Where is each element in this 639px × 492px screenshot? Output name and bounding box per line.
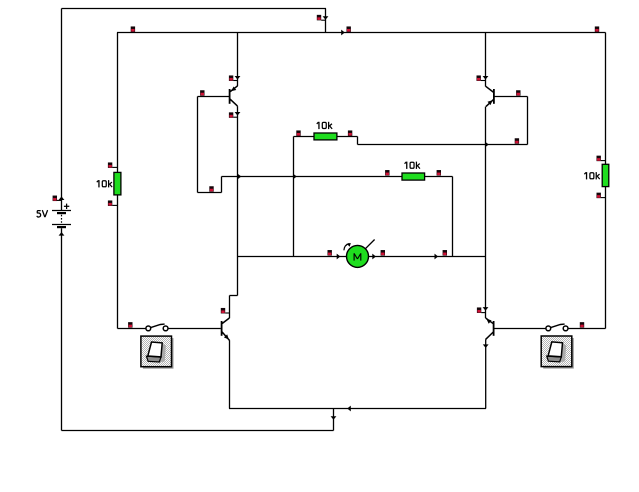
- pin motor row right end: [443, 250, 447, 256]
- current arrow on inner rail: [341, 30, 345, 36]
- pin motor left: [328, 250, 332, 256]
- pin switch SW2 right: [580, 322, 584, 328]
- switch icon SW1: [141, 336, 174, 369]
- wire long run to Q2 base loop: [358, 144, 528, 146]
- pin Q4 top: [477, 307, 481, 313]
- junction arrow at x293: [294, 174, 297, 179]
- wire Q4 base lead: [494, 328, 546, 330]
- value label 10k (R4): [584, 172, 599, 179]
- wire R2 left drop: [293, 137, 295, 257]
- wire R2 left lead: [294, 136, 315, 138]
- pin R4 bottom: [597, 193, 601, 199]
- wire motor row right: [368, 256, 486, 258]
- battery B1 5V: [52, 204, 71, 229]
- current arrow before right junction: [435, 254, 439, 260]
- resistor R1 10k (left vertical): [114, 172, 121, 195]
- pin R2 right: [348, 130, 352, 136]
- wire battery negative vertical: [61, 228, 63, 430]
- value label 10k (R1): [97, 180, 112, 187]
- wire top inner rail: [117, 32, 606, 34]
- current arrow above Q4: [483, 307, 489, 311]
- pin loop bottom: [209, 186, 213, 192]
- pin R1 top: [108, 162, 112, 168]
- wire Q4 emitter down: [485, 339, 487, 408]
- pin R3 right: [437, 170, 441, 176]
- pin Q1 bottom: [229, 112, 233, 118]
- pin battery positive: [53, 196, 57, 202]
- wire top outer rail: [62, 8, 327, 10]
- wire Q2 base lead: [494, 96, 528, 98]
- transistor Q2 (PNP top-right): [486, 33, 495, 107]
- current arrow motor right: [372, 254, 376, 260]
- pin motor right: [381, 250, 385, 256]
- pin R4 top: [597, 156, 601, 162]
- wire junction drop: [333, 409, 335, 431]
- value label 10k (R2): [317, 122, 332, 129]
- pin Q1 top: [229, 75, 233, 81]
- resistor R4 10k (right vertical): [602, 164, 609, 186]
- wire Q1 base lead: [198, 96, 230, 98]
- pin top drop: [317, 15, 321, 21]
- wire R2 right lead: [337, 136, 358, 138]
- motor M1: [344, 240, 375, 268]
- resistor R2 10k (top middle): [314, 133, 337, 140]
- wire R2 step down: [357, 137, 359, 145]
- wire right rail lower: [605, 187, 607, 329]
- current arrow on emitter rail: [347, 406, 351, 412]
- wire switch SW2 to right rail: [568, 328, 606, 330]
- pin inner rail left end: [131, 26, 135, 32]
- wire bottom lower rail: [62, 430, 334, 432]
- junction arrow at x486: [486, 142, 489, 147]
- value label 10k (R3): [405, 162, 420, 169]
- wire Q1 base loop step up: [221, 177, 223, 193]
- current arrow motor left: [337, 254, 341, 260]
- wire top drop from outer rail: [325, 9, 327, 33]
- transistor Q3 (NPN bottom-left): [222, 318, 231, 341]
- wire motor row left: [238, 256, 348, 258]
- pin Q1 base: [200, 90, 204, 96]
- transistor Q4 (NPN bottom-right): [485, 317, 494, 339]
- wire right rail upper: [605, 33, 607, 165]
- pin R3 left: [385, 170, 389, 176]
- pin Q2 base: [516, 90, 520, 96]
- current arrow Q1 top: [235, 76, 241, 80]
- pin R1 bottom: [108, 200, 112, 206]
- wire jog down to Q3: [229, 296, 231, 319]
- wire battery positive vertical: [61, 9, 63, 211]
- resistor R3 10k (middle): [402, 173, 425, 180]
- wire jog to Q3: [230, 295, 238, 297]
- current arrow above battery: [59, 196, 65, 200]
- switch SW2 (open): [546, 324, 568, 331]
- wire to switch SW1: [118, 328, 147, 330]
- wire left rail upper: [117, 33, 119, 174]
- switch icon SW2: [541, 336, 574, 369]
- wire middle row: [222, 176, 453, 178]
- pin inner rail right end: [595, 26, 599, 32]
- wire Q1 base loop bottom: [198, 192, 222, 194]
- transistor Q1 (PNP top-left): [230, 33, 238, 107]
- current arrow Q1 bottom: [235, 112, 241, 116]
- wire Q2 collector vertical: [485, 107, 487, 318]
- wire switch SW1 to Q3 base: [168, 328, 221, 330]
- pin inner rail right of drop: [347, 26, 351, 32]
- current arrow Q4 emitter: [483, 344, 489, 348]
- wire Q1 base loop left vertical: [197, 97, 199, 193]
- pin R2 left: [296, 130, 300, 136]
- wire Q2 base loop right vertical: [527, 97, 529, 145]
- current arrow Q2 top: [483, 76, 489, 80]
- wire Q1 collector vertical: [237, 106, 239, 295]
- pin near Q2 base loop corner: [515, 138, 519, 144]
- junction arrow at x238: [238, 174, 241, 179]
- current arrow on junction drop: [331, 416, 337, 420]
- wire left rail lower: [117, 195, 119, 329]
- pin Q2 top: [477, 75, 481, 81]
- current arrow below battery: [59, 232, 65, 236]
- pin switch SW1 left: [128, 322, 132, 328]
- wire Q3 emitter down: [229, 341, 231, 409]
- wire R3 right drop: [452, 177, 454, 257]
- wire emitter rail bottom: [229, 408, 486, 410]
- current arrow on top drop: [323, 16, 329, 20]
- value label 5V: [37, 210, 48, 217]
- pin Q3 top: [221, 308, 225, 314]
- switch SW1 (open): [146, 324, 168, 331]
